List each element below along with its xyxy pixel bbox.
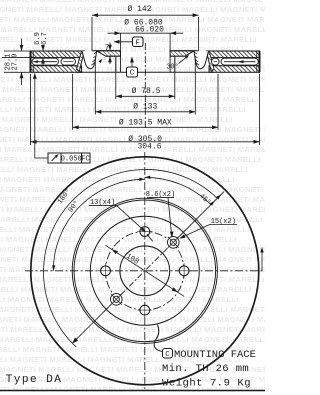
svg-text:FC: FC (81, 156, 89, 164)
svg-text:MAGNETI MARELLI MAGNETI MARELL: MAGNETI MARELLI MAGNETI MARELLI MAGNETI … (0, 305, 265, 314)
svg-text:Ø 193.5 MAX: Ø 193.5 MAX (119, 118, 172, 127)
svg-text:MAGNETI MARELLI MAGNETI MARELL: MAGNETI MARELLI MAGNETI MARELLI MAGNETI … (0, 175, 235, 184)
svg-text:7: 7 (105, 44, 110, 53)
svg-text:MAGNETI MARELLI MAGNETI MARELL: MAGNETI MARELLI MAGNETI MARELLI MAGNETI … (0, 165, 248, 174)
svg-text:0.050: 0.050 (61, 156, 82, 164)
svg-text:MOUNTING FACE: MOUNTING FACE (174, 349, 256, 361)
svg-text:MAGNETI MARELLI MAGNETI MARELL: MAGNETI MARELLI MAGNETI MARELLI MAGNETI … (0, 205, 265, 214)
svg-text:Ø 78.5: Ø 78.5 (132, 87, 161, 96)
svg-text:MAGNETI MARELLI MAGNETI MARELL: MAGNETI MARELLI MAGNETI MARELLI MAGNETI … (0, 105, 246, 114)
svg-text:MAGNETI MARELLI MAGNETI MARELL: MAGNETI MARELLI MAGNETI MARELLI MAGNETI … (0, 0, 265, 4)
svg-text:MAGNETI MARELLI MAGNETI MARELL: MAGNETI MARELLI MAGNETI MARELLI MAGNETI … (0, 265, 265, 274)
svg-text:27.9: 27.9 (12, 54, 20, 71)
svg-text:Ø 142: Ø 142 (127, 5, 151, 14)
svg-text:Type DA: Type DA (6, 374, 63, 386)
svg-text:MAGNETI MARELLI MAGNETI MARELL: MAGNETI MARELLI MAGNETI MARELLI MAGNETI … (0, 325, 265, 334)
svg-text:C: C (165, 351, 170, 359)
svg-text:MAGNETI MARELLI MAGNETI MARELL: MAGNETI MARELLI MAGNETI MARELLI MAGNETI … (0, 155, 261, 164)
svg-text:F: F (136, 39, 141, 47)
svg-text:Weight 7.9 Kg: Weight 7.9 Kg (162, 378, 251, 390)
svg-text:30°: 30° (166, 63, 179, 72)
svg-text:66.020: 66.020 (135, 25, 164, 34)
svg-text:Ø 133: Ø 133 (133, 103, 157, 112)
svg-text:304.6: 304.6 (137, 142, 161, 151)
svg-text:MAGNETI MARELLI MAGNETI MARELL: MAGNETI MARELLI MAGNETI MARELLI MAGNETI … (0, 145, 265, 154)
svg-text:Min. TH 26 mm: Min. TH 26 mm (162, 363, 249, 375)
svg-text:C: C (130, 70, 135, 78)
svg-text:6.7: 6.7 (41, 32, 49, 45)
